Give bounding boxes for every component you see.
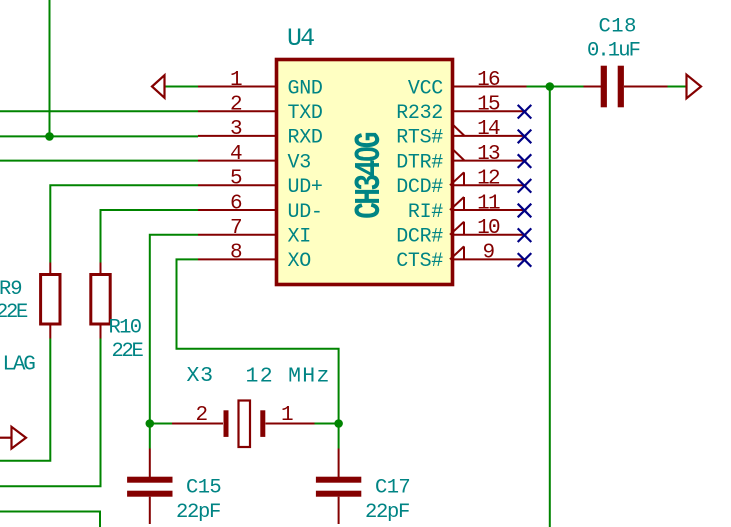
svg-text:R9: R9 (0, 278, 21, 301)
svg-text:12: 12 (477, 168, 500, 191)
svg-text:7: 7 (230, 217, 241, 240)
svg-text:4: 4 (230, 143, 242, 166)
svg-text:22pF: 22pF (176, 501, 220, 524)
svg-text:X3: X3 (187, 364, 214, 388)
svg-text:0.1uF: 0.1uF (587, 40, 640, 63)
svg-text:GND: GND (288, 77, 323, 100)
svg-text:1: 1 (281, 404, 293, 427)
svg-text:16: 16 (477, 69, 500, 92)
svg-text:1: 1 (230, 69, 242, 92)
svg-text:2: 2 (196, 404, 208, 427)
svg-text:XI: XI (288, 226, 311, 249)
svg-text:CTS#: CTS# (396, 250, 443, 273)
svg-text:5: 5 (230, 168, 242, 191)
svg-text:10: 10 (477, 217, 500, 240)
svg-text:XO: XO (288, 250, 311, 273)
svg-text:CH340G: CH340G (349, 133, 390, 219)
svg-text:C15: C15 (186, 477, 221, 500)
svg-text:2: 2 (230, 94, 242, 117)
svg-text:LAG: LAG (3, 354, 36, 377)
svg-text:6: 6 (230, 192, 242, 215)
svg-text:15: 15 (477, 94, 500, 117)
svg-text:R232: R232 (396, 102, 443, 125)
svg-text:8: 8 (230, 242, 242, 265)
svg-text:22E: 22E (112, 340, 144, 363)
svg-text:V3: V3 (288, 151, 311, 174)
svg-text:DCD#: DCD# (396, 176, 443, 199)
svg-text:22E: 22E (0, 301, 28, 324)
svg-text:UD+: UD+ (288, 176, 323, 199)
svg-text:9: 9 (483, 242, 495, 265)
svg-text:11: 11 (477, 192, 500, 215)
svg-text:R10: R10 (109, 317, 142, 340)
svg-text:22pF: 22pF (365, 501, 409, 524)
svg-text:12 MHz: 12 MHz (246, 365, 331, 389)
svg-text:VCC: VCC (408, 77, 443, 100)
svg-text:DTR#: DTR# (396, 151, 443, 174)
svg-text:C17: C17 (375, 477, 410, 500)
svg-text:RI#: RI# (408, 201, 443, 224)
svg-text:C18: C18 (599, 16, 637, 39)
svg-text:UD-: UD- (288, 201, 323, 224)
svg-text:RXD: RXD (288, 127, 323, 150)
svg-text:3: 3 (230, 118, 242, 141)
svg-text:13: 13 (477, 143, 500, 166)
svg-text:TXD: TXD (288, 102, 323, 125)
svg-text:14: 14 (477, 118, 500, 141)
svg-text:U4: U4 (287, 24, 314, 53)
svg-text:DCR#: DCR# (396, 226, 443, 249)
svg-text:RTS#: RTS# (396, 127, 443, 150)
